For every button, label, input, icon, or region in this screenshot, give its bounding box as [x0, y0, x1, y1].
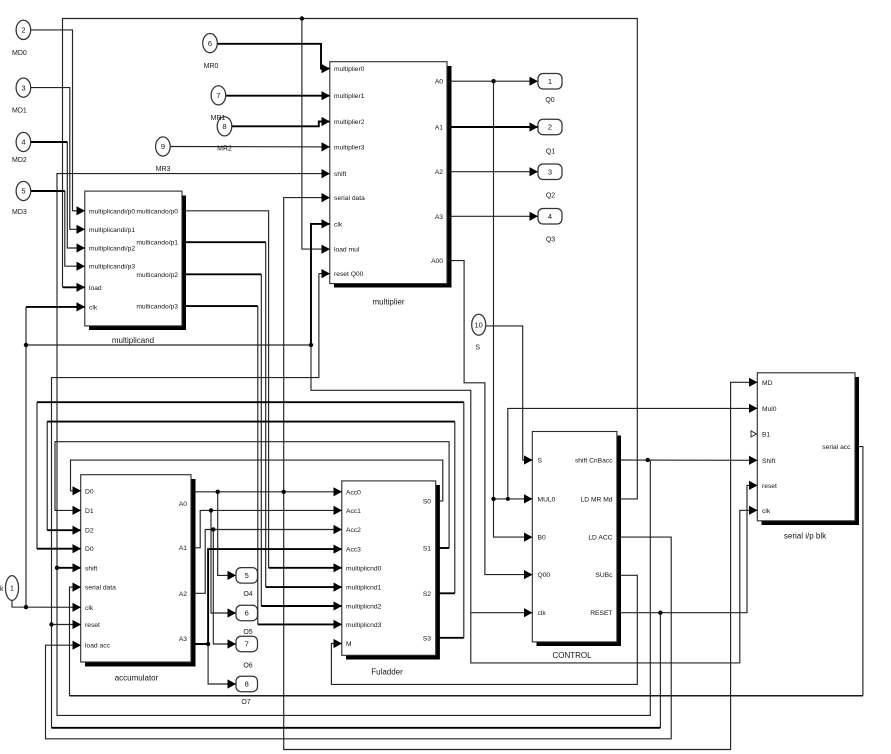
svg-text:load acc: load acc	[85, 643, 111, 650]
svg-text:O7: O7	[241, 699, 250, 706]
svg-text:multiplicnd0: multiplicnd0	[346, 565, 382, 572]
svg-text:multiplicandi/p2: multiplicandi/p2	[89, 246, 135, 253]
svg-text:reset: reset	[762, 483, 777, 490]
svg-text:D2: D2	[85, 528, 94, 535]
svg-text:clk: clk	[334, 221, 343, 228]
svg-text:4: 4	[548, 212, 552, 221]
svg-text:Acc0: Acc0	[346, 489, 361, 496]
svg-text:Acc3: Acc3	[346, 547, 361, 554]
svg-text:clk: clk	[85, 605, 94, 612]
svg-text:Q2: Q2	[546, 193, 555, 200]
svg-text:CONTROL: CONTROL	[552, 651, 592, 660]
svg-text:A2: A2	[435, 169, 443, 176]
svg-text:multicando/p0: multicando/p0	[136, 208, 178, 215]
svg-text:Shift: Shift	[762, 458, 776, 465]
svg-text:multiplicnd2: multiplicnd2	[346, 604, 382, 611]
svg-text:10: 10	[475, 320, 483, 329]
svg-text:9: 9	[161, 142, 165, 151]
svg-text:MD2: MD2	[12, 157, 27, 164]
svg-text:multicando/p1: multicando/p1	[136, 240, 178, 247]
svg-text:3: 3	[548, 168, 552, 177]
svg-text:D0: D0	[85, 488, 94, 495]
svg-text:6: 6	[245, 609, 249, 618]
svg-text:MR2: MR2	[217, 146, 232, 153]
svg-text:Acc1: Acc1	[346, 508, 361, 515]
svg-text:Fuladder: Fuladder	[371, 668, 403, 677]
svg-text:MD1: MD1	[12, 108, 27, 115]
svg-text:LD MR Md: LD MR Md	[581, 496, 613, 503]
svg-text:B1: B1	[762, 431, 770, 438]
svg-text:A2: A2	[179, 591, 187, 598]
svg-text:multiplicandi/p1: multiplicandi/p1	[89, 227, 135, 234]
svg-text:serial data: serial data	[334, 195, 365, 202]
svg-text:O4: O4	[243, 591, 252, 598]
svg-text:multiplier1: multiplier1	[334, 93, 365, 100]
svg-text:reset Q00: reset Q00	[334, 271, 364, 278]
svg-text:D0: D0	[85, 546, 94, 553]
svg-text:5: 5	[21, 187, 25, 196]
svg-text:load: load	[89, 285, 102, 292]
svg-text:RESET: RESET	[590, 610, 612, 617]
svg-text:multiplicnd1: multiplicnd1	[346, 585, 382, 592]
svg-text:S3: S3	[423, 635, 431, 642]
svg-text:multicando/p3: multicando/p3	[136, 304, 178, 311]
svg-text:MUL0: MUL0	[538, 496, 556, 503]
svg-text:S: S	[538, 458, 543, 465]
svg-text:MR3: MR3	[156, 166, 171, 173]
svg-text:S: S	[475, 345, 480, 352]
svg-text:clk: clk	[762, 508, 771, 515]
svg-text:1: 1	[548, 77, 552, 86]
svg-text:clk: clk	[89, 304, 98, 311]
svg-text:5: 5	[245, 571, 249, 580]
svg-text:k: k	[0, 586, 4, 593]
svg-text:LD ACC: LD ACC	[588, 535, 612, 542]
svg-text:MD0: MD0	[12, 50, 27, 57]
svg-text:shift: shift	[85, 565, 97, 572]
svg-text:serial i/p blk: serial i/p blk	[784, 532, 827, 541]
svg-text:D1: D1	[85, 508, 94, 515]
svg-text:4: 4	[21, 138, 25, 147]
svg-text:shift: shift	[334, 171, 346, 178]
svg-text:A0: A0	[179, 501, 187, 508]
svg-text:O5: O5	[243, 629, 252, 636]
svg-text:multiplicandi/p3: multiplicandi/p3	[89, 264, 135, 271]
svg-text:O6: O6	[243, 663, 252, 670]
svg-text:2: 2	[548, 123, 552, 132]
svg-text:multiplier0: multiplier0	[334, 66, 365, 73]
svg-text:A1: A1	[179, 545, 187, 552]
svg-text:2: 2	[21, 26, 25, 35]
svg-text:6: 6	[208, 39, 212, 48]
svg-text:multicando/p2: multicando/p2	[136, 272, 178, 279]
svg-text:8: 8	[222, 122, 226, 131]
svg-text:8: 8	[245, 680, 249, 689]
svg-text:Acc2: Acc2	[346, 527, 361, 534]
svg-text:3: 3	[21, 83, 25, 92]
svg-text:shift CnBacc: shift CnBacc	[575, 458, 613, 465]
svg-text:MD3: MD3	[12, 209, 27, 216]
svg-text:A3: A3	[435, 214, 443, 221]
svg-text:Q1: Q1	[546, 149, 555, 156]
svg-text:reset: reset	[85, 622, 100, 629]
svg-text:multiplicand: multiplicand	[112, 336, 154, 345]
svg-text:A3: A3	[179, 636, 187, 643]
svg-text:MR1: MR1	[211, 115, 226, 122]
svg-text:7: 7	[216, 91, 220, 100]
svg-text:7: 7	[245, 640, 249, 649]
svg-text:multiplicnd3: multiplicnd3	[346, 622, 382, 629]
svg-text:serial data: serial data	[85, 585, 116, 592]
svg-text:load mul: load mul	[334, 247, 360, 254]
svg-text:Q0: Q0	[545, 97, 554, 104]
svg-text:1: 1	[10, 584, 14, 593]
svg-text:Mul0: Mul0	[762, 406, 777, 413]
svg-text:A00: A00	[431, 258, 443, 265]
svg-text:M: M	[346, 641, 352, 648]
svg-text:Q3: Q3	[546, 237, 555, 244]
svg-text:S0: S0	[423, 498, 431, 505]
svg-text:clk: clk	[538, 610, 547, 617]
svg-text:A0: A0	[435, 79, 443, 86]
svg-text:A1: A1	[435, 125, 443, 132]
svg-text:MR0: MR0	[204, 63, 219, 70]
svg-text:SUBc: SUBc	[595, 572, 613, 579]
svg-text:MD: MD	[762, 380, 773, 387]
svg-text:serial acc: serial acc	[822, 444, 851, 451]
svg-text:multiplicandi/p0: multiplicandi/p0	[89, 208, 135, 215]
svg-text:multiplier: multiplier	[372, 298, 404, 307]
svg-text:S1: S1	[423, 546, 431, 553]
svg-text:B0: B0	[538, 535, 546, 542]
svg-text:multiplier2: multiplier2	[334, 119, 365, 126]
svg-text:Q00: Q00	[538, 572, 551, 579]
svg-text:S2: S2	[423, 591, 431, 598]
svg-text:multiplier3: multiplier3	[334, 144, 365, 151]
svg-text:accumulator: accumulator	[115, 674, 159, 683]
